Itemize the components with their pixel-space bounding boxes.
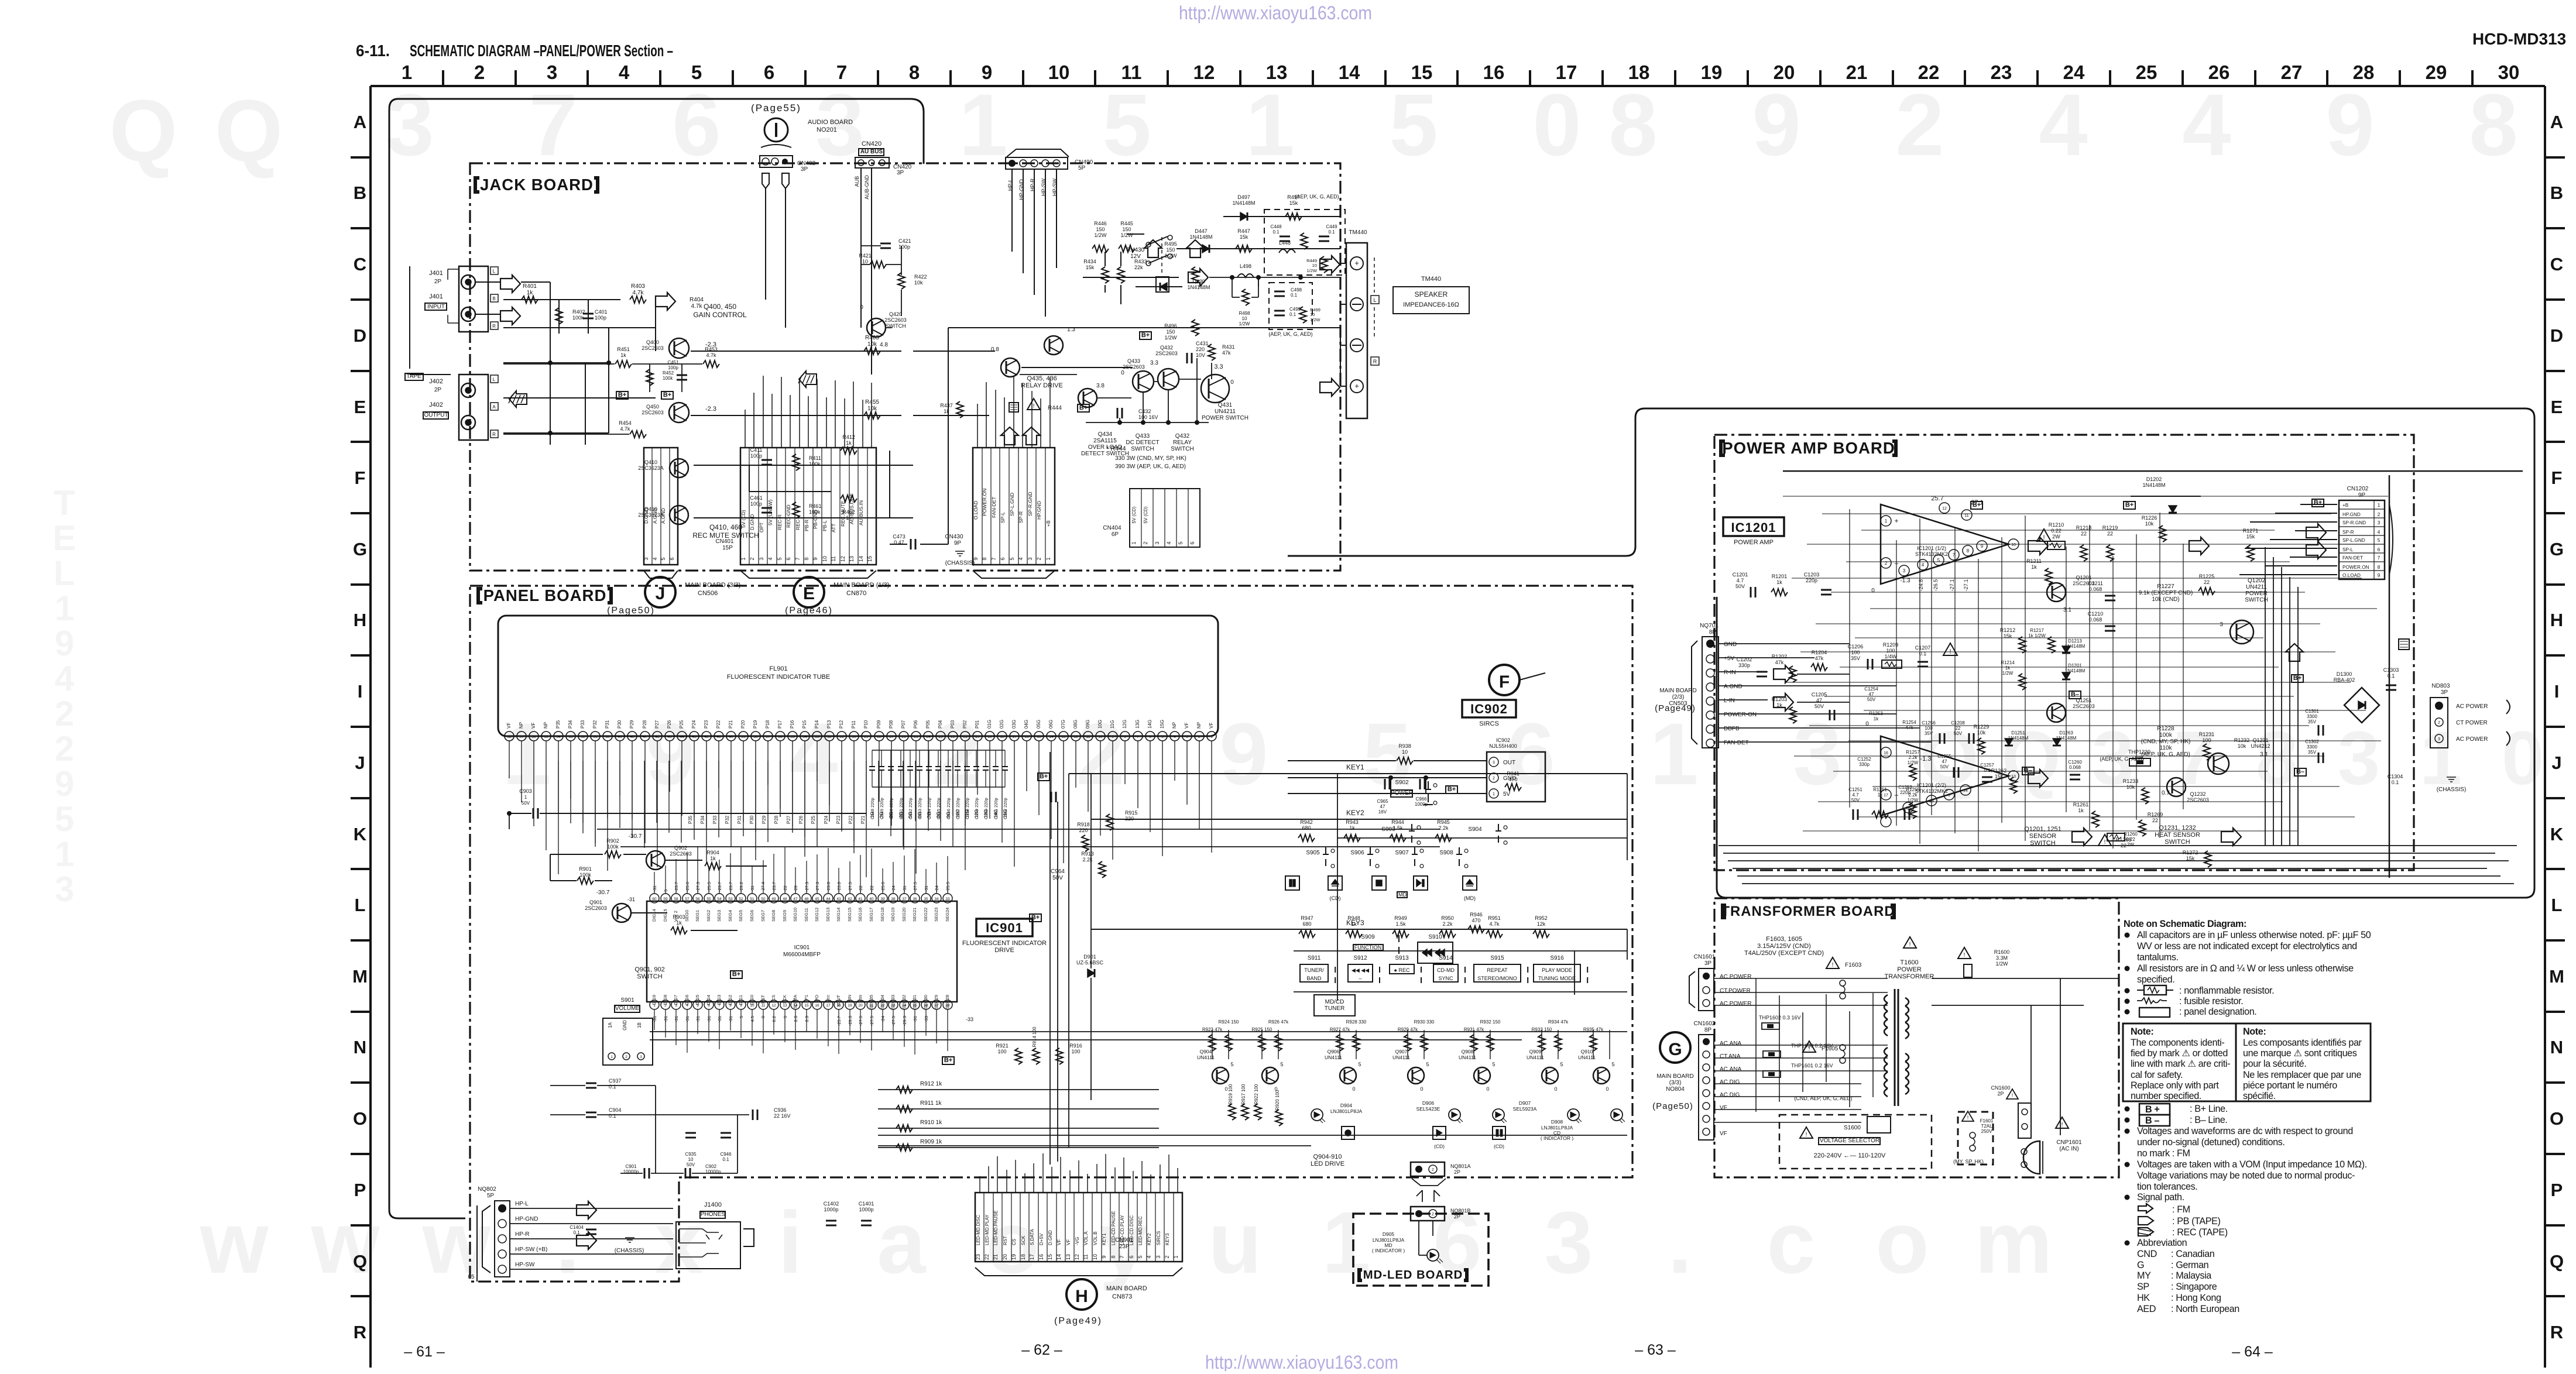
svg-text:P25: P25 — [679, 720, 684, 729]
note nonflammable resistor — [2125, 988, 2130, 994]
svg-text:TRANSFORMER: TRANSFORMER — [1885, 973, 1934, 980]
svg-text:-33: -33 — [924, 1016, 929, 1022]
svg-text:Q901, 902: Q901, 902 — [634, 966, 664, 973]
resistor R497 — [1285, 213, 1302, 220]
svg-text:!: ! — [2012, 1093, 2014, 1098]
svg-text:J: J — [2551, 753, 2561, 773]
svg-text:10: 10 — [2011, 543, 2016, 547]
svg-text:12: 12 — [1074, 1254, 1080, 1260]
svg-text:13G: 13G — [1135, 720, 1140, 729]
label MD/CD TUNER — [1314, 995, 1355, 1016]
svg-text:2SC2603: 2SC2603 — [670, 851, 692, 857]
svg-text:(Page50): (Page50) — [1652, 1101, 1693, 1111]
svg-text:R912 1k: R912 1k — [920, 1081, 942, 1087]
note bullet resistors — [2125, 966, 2130, 971]
svg-text:1k: 1k — [2031, 564, 2037, 570]
wire transformer right — [1932, 978, 2119, 1174]
svg-text:J1400: J1400 — [704, 1201, 722, 1208]
svg-text:LNJ801LP8JA: LNJ801LP8JA — [1330, 1108, 1363, 1114]
svg-text:AC.POWER: AC.POWER — [1720, 1001, 1751, 1007]
svg-text:14: 14 — [1049, 735, 1054, 739]
resistor R447 — [1236, 245, 1252, 252]
svg-text:10k: 10k — [2126, 784, 2135, 790]
svg-text:R434: R434 — [1083, 259, 1096, 265]
svg-text:CS: CS — [771, 995, 776, 1001]
svg-text:R445: R445 — [1120, 221, 1133, 226]
svg-text:R951: R951 — [1488, 915, 1501, 921]
svg-text:9: 9 — [812, 557, 818, 560]
svg-text:+: + — [1354, 259, 1359, 267]
svg-text:D447: D447 — [1195, 228, 1208, 234]
svg-text:Q: Q — [353, 1251, 367, 1272]
svg-text:56: 56 — [531, 735, 536, 739]
svg-text:P: P — [2551, 1180, 2563, 1200]
svg-text:VF: VF — [1184, 723, 1189, 729]
wire amp in — [1719, 644, 1932, 742]
svg-text:NP: NP — [543, 722, 548, 729]
resistor R1260 — [2098, 834, 2111, 846]
svg-text:B+: B+ — [2314, 499, 2322, 506]
svg-text:2SC2603: 2SC2603 — [585, 905, 607, 911]
svg-text:R1202: R1202 — [1772, 654, 1788, 659]
svg-text:0: 0 — [2502, 715, 2544, 801]
svg-text:220: 220 — [1079, 827, 1088, 833]
svg-text:1k: 1k — [1874, 716, 1879, 722]
svg-text:R934 47k: R934 47k — [1548, 1019, 1569, 1025]
svg-text:C448: C448 — [1270, 224, 1282, 229]
svg-text:B+: B+ — [1973, 501, 1981, 509]
svg-text:1N4148M: 1N4148M — [1189, 234, 1212, 240]
svg-text:H: H — [354, 610, 366, 630]
svg-text:: North European: : North European — [2171, 1304, 2239, 1314]
svg-text:57: 57 — [685, 897, 690, 901]
svg-text:(Page49): (Page49) — [1054, 1316, 1102, 1326]
svg-text:-27.1: -27.1 — [1949, 579, 1955, 592]
svg-text:150: 150 — [1166, 329, 1175, 335]
svg-text:B+: B+ — [944, 1057, 952, 1064]
svg-text:C1251: C1251 — [1848, 787, 1862, 792]
svg-text:SEG30: SEG30 — [923, 995, 928, 1009]
svg-text:21: 21 — [963, 735, 968, 739]
svg-text:R952: R952 — [1535, 915, 1548, 921]
diode D447 — [1176, 248, 1340, 249]
resistor R431 — [1208, 344, 1215, 360]
svg-text:R: R — [2550, 1322, 2563, 1342]
svg-text:50: 50 — [605, 735, 610, 739]
signal arrow hp1 — [1144, 240, 1162, 257]
svg-text:3G: 3G — [889, 812, 894, 818]
mark I box — [2399, 639, 2409, 650]
svg-text:SCK: SCK — [1021, 1235, 1026, 1245]
svg-text:D904: D904 — [1340, 1102, 1353, 1108]
resistor R437 — [956, 401, 963, 418]
svg-text:-23.8: -23.8 — [836, 882, 842, 892]
svg-text:Vss: Vss — [857, 995, 863, 1002]
svg-text:J401: J401 — [429, 293, 443, 300]
svg-text:-27.5: -27.5 — [891, 1016, 896, 1026]
heat sensor transistors — [2167, 778, 2186, 796]
svg-text:0: 0 — [760, 1016, 766, 1018]
svg-text:5: 5 — [1230, 1062, 1233, 1067]
svg-text:15P: 15P — [722, 545, 733, 551]
svg-text:C903: C903 — [519, 788, 532, 794]
svg-text:CN506: CN506 — [698, 590, 718, 597]
svg-text:(AEP, UK, G, AED): (AEP, UK, G, AED) — [1295, 194, 1339, 200]
svg-text:2SC3623A: 2SC3623A — [638, 465, 664, 471]
svg-text:P22: P22 — [716, 720, 721, 729]
svg-text:-26.5: -26.5 — [1933, 579, 1939, 592]
svg-text:SP-R: SP-R — [1018, 511, 1024, 523]
svg-text:-31: -31 — [728, 1016, 733, 1022]
svg-text:SYNC: SYNC — [1438, 975, 1453, 981]
svg-text:D1300: D1300 — [2337, 671, 2352, 677]
svg-text:G: G — [1668, 1040, 1682, 1059]
svg-text:HEAT SENSOR: HEAT SENSOR — [2155, 832, 2200, 839]
svg-text:10k: 10k — [914, 280, 923, 286]
svg-text:C935: C935 — [685, 1152, 697, 1157]
svg-text:-31: -31 — [924, 885, 929, 892]
svg-text:59: 59 — [663, 897, 668, 901]
signal arrows amp in — [1774, 665, 1793, 679]
svg-text:3300: 3300 — [2307, 744, 2317, 750]
svg-text:a: a — [877, 1193, 927, 1291]
svg-text:B+: B+ — [1141, 332, 1150, 339]
svg-text:TM440: TM440 — [1421, 276, 1441, 283]
svg-text:HCD-MD313: HCD-MD313 — [2472, 30, 2566, 48]
svg-text:SEG6: SEG6 — [749, 910, 754, 922]
svg-text:R930 330: R930 330 — [1414, 1019, 1435, 1025]
resistor R412 — [841, 447, 857, 454]
svg-text:: B+ Line.: : B+ Line. — [2190, 1104, 2228, 1114]
svg-text:P12: P12 — [839, 720, 844, 729]
svg-text:– 63 –: – 63 – — [1635, 1342, 1676, 1358]
svg-text:IMPEDANCE6-16Ω: IMPEDANCE6-16Ω — [1403, 301, 1459, 308]
svg-text:3: 3 — [2378, 520, 2381, 525]
signal arrow mid — [2189, 537, 2209, 551]
svg-text:12k: 12k — [1537, 921, 1546, 927]
svg-text:P18: P18 — [765, 720, 770, 729]
svg-text:100k: 100k — [809, 461, 821, 467]
svg-text:52: 52 — [739, 897, 743, 901]
svg-text:2: 2 — [1164, 1255, 1170, 1258]
svg-text:R: R — [1373, 359, 1377, 365]
svg-text:6: 6 — [764, 61, 774, 83]
svg-text:D1202: D1202 — [2146, 476, 2162, 482]
svg-text:JACK BOARD: JACK BOARD — [480, 176, 594, 194]
svg-text:53: 53 — [568, 735, 573, 739]
svg-text:1: 1 — [402, 61, 412, 83]
label B+ led — [942, 1057, 954, 1064]
MD-LED board connector NQ801A — [1411, 1162, 1445, 1176]
svg-text:-31: -31 — [663, 1016, 668, 1022]
svg-text:SEG29: SEG29 — [934, 995, 939, 1009]
svg-text:DBFB: DBFB — [1724, 726, 1740, 732]
svg-text:Q434: Q434 — [1098, 431, 1113, 438]
svg-text:5: 5 — [2378, 537, 2381, 543]
svg-text:1/2W: 1/2W — [1120, 232, 1133, 238]
svg-text:0.7: 0.7 — [2162, 790, 2170, 796]
svg-text:27: 27 — [889, 735, 894, 739]
svg-text:2P: 2P — [1997, 1091, 2004, 1097]
svg-text:R1210: R1210 — [2049, 522, 2064, 528]
svg-text:1: 1 — [1210, 735, 1213, 739]
diode D497 — [1223, 216, 1340, 217]
svg-text:0: 0 — [1871, 588, 1875, 594]
svg-text:FLUORESCENT INDICATOR: FLUORESCENT INDICATOR — [962, 940, 1047, 947]
svg-text:-1.3: -1.3 — [1920, 755, 1932, 762]
svg-text:3.3M: 3.3M — [1996, 955, 2008, 961]
svg-text:C1257: C1257 — [1980, 762, 1994, 768]
svg-text:S911: S911 — [1308, 955, 1321, 961]
svg-text:A.GND: A.GND — [652, 508, 658, 524]
svg-text:NJL55H400: NJL55H400 — [1489, 743, 1517, 749]
svg-text:11: 11 — [1086, 735, 1090, 739]
svg-text:P20: P20 — [740, 720, 746, 729]
svg-text:IC1201: IC1201 — [1731, 520, 1776, 535]
svg-text:F1603, 1605: F1603, 1605 — [1766, 936, 1802, 943]
svg-text:3.8: 3.8 — [1096, 383, 1105, 389]
svg-text:P10: P10 — [863, 720, 869, 729]
capacitor C901 — [644, 1168, 646, 1179]
svg-text:J: J — [355, 753, 365, 773]
svg-text:100: 100 — [1886, 648, 1895, 654]
svg-text:SEG24: SEG24 — [945, 908, 950, 922]
svg-text:0.1: 0.1 — [1272, 229, 1280, 235]
svg-text:CT.ANA: CT.ANA — [1720, 1053, 1741, 1060]
svg-text:Q901: Q901 — [589, 899, 602, 905]
svg-text:16: 16 — [1884, 751, 1888, 755]
svg-text:3: 3 — [54, 870, 74, 909]
svg-text:0.1: 0.1 — [1289, 312, 1296, 317]
svg-text:30: 30 — [2498, 61, 2520, 83]
resistor R402 — [555, 308, 562, 324]
svg-text:* R444: * R444 — [1106, 445, 1126, 452]
svg-text:1N4148M: 1N4148M — [2142, 482, 2165, 488]
svg-text:-27.4: -27.4 — [760, 882, 766, 892]
svg-text:MD: MD — [1398, 892, 1407, 898]
svg-text:15: 15 — [1411, 61, 1433, 83]
svg-text:4: 4 — [1166, 541, 1172, 544]
svg-text:L: L — [2551, 895, 2563, 915]
svg-text:: fusible resistor.: : fusible resistor. — [2179, 996, 2243, 1007]
svg-text:4: 4 — [1922, 562, 1925, 568]
label B+ panel — [730, 971, 742, 978]
svg-text:R444: R444 — [1048, 405, 1062, 411]
svg-text:INPUT: INPUT — [427, 304, 445, 310]
svg-text:UN4211: UN4211 — [2246, 584, 2267, 590]
svg-text:P23: P23 — [836, 815, 841, 824]
svg-text:R1251: R1251 — [1873, 787, 1887, 792]
svg-text:http://www.xiaoyu163.com: http://www.xiaoyu163.com — [1179, 2, 1372, 23]
svg-text:FAN-DET: FAN-DET — [1724, 740, 1749, 746]
svg-text:3.1: 3.1 — [2063, 607, 2071, 613]
signal arrow amp out — [2028, 537, 2048, 551]
circled G callout — [1660, 1032, 1690, 1063]
svg-text:9: 9 — [1752, 75, 1800, 174]
svg-text:38: 38 — [891, 897, 896, 901]
svg-text:OUT: OUT — [1503, 760, 1515, 766]
svg-text:2SC2603: 2SC2603 — [2073, 703, 2095, 709]
svg-text:POWER AMP: POWER AMP — [1734, 539, 1774, 546]
circled E callout — [794, 577, 824, 607]
svg-text:TRANSFORMER BOARD: TRANSFORMER BOARD — [1721, 904, 1895, 919]
svg-text:1/2W: 1/2W — [1094, 232, 1107, 238]
connector CN402 — [760, 156, 793, 167]
svg-text:100p: 100p — [750, 453, 762, 459]
label B+ amp1 — [1971, 501, 1982, 509]
svg-text:35: 35 — [924, 897, 928, 901]
svg-text:E: E — [2551, 397, 2563, 417]
svg-text:SEG13: SEG13 — [825, 908, 831, 922]
svg-text:Note on Schematic Diagram:: Note on Schematic Diagram: — [2124, 919, 2246, 929]
svg-text:47: 47 — [643, 735, 647, 739]
svg-text:FAN-DET: FAN-DET — [2342, 555, 2363, 561]
svg-text:3: 3 — [1186, 735, 1188, 739]
svg-text:1: 1 — [2378, 502, 2381, 508]
svg-text:5: 5 — [1389, 75, 1438, 174]
svg-text:1k: 1k — [620, 352, 626, 358]
svg-text:07G: 07G — [1061, 720, 1066, 729]
note abbreviation — [2125, 1241, 2130, 1246]
svg-text:20: 20 — [1002, 1254, 1008, 1260]
svg-text:14G: 14G — [993, 809, 999, 818]
svg-text:SEG18: SEG18 — [880, 908, 885, 922]
svg-text:Q902: Q902 — [674, 845, 687, 851]
svg-text:Q908: Q908 — [1462, 1049, 1474, 1054]
svg-text:REC-R: REC-R — [777, 514, 783, 530]
wire bus jack left — [410, 282, 656, 445]
svg-text:DIG6: DIG6 — [684, 995, 690, 1005]
fuse F1605 sym — [1803, 1041, 1816, 1052]
svg-text:4.7k: 4.7k — [1489, 921, 1500, 927]
svg-text:11G: 11G — [1110, 720, 1115, 729]
svg-text:11: 11 — [831, 556, 836, 561]
svg-text:D901: D901 — [1083, 954, 1096, 960]
svg-text:O.LOAD: O.LOAD — [973, 501, 979, 520]
svg-text:POWER: POWER — [1897, 966, 1922, 973]
svg-text:SEG22: SEG22 — [923, 908, 928, 922]
svg-text:10G: 10G — [1097, 720, 1103, 729]
svg-text:10: 10 — [1098, 735, 1103, 739]
svg-text:08G: 08G — [1073, 720, 1078, 729]
svg-text:R: R — [492, 432, 496, 437]
svg-text:-31: -31 — [627, 896, 635, 902]
svg-text:R915: R915 — [1125, 810, 1138, 816]
svg-text:0: 0 — [860, 304, 863, 311]
fuse F1603 sym — [1826, 957, 1839, 968]
svg-text:3: 3 — [1154, 541, 1160, 544]
svg-text:OUTPUT: OUTPUT — [424, 412, 448, 418]
svg-text:– 64 –: – 64 – — [2232, 1344, 2273, 1360]
svg-text:8G: 8G — [936, 812, 941, 818]
svg-text:C1404: C1404 — [570, 1225, 584, 1230]
svg-text:4.5: 4.5 — [750, 1016, 755, 1022]
svg-text:10: 10 — [822, 556, 828, 562]
svg-text:100p: 100p — [595, 315, 606, 321]
svg-text:AU BUS: AU BUS — [860, 149, 883, 155]
svg-text:3: 3 — [1544, 1193, 1593, 1291]
svg-text:9G: 9G — [946, 812, 951, 818]
svg-text:R946: R946 — [1470, 912, 1483, 918]
svg-text:15k: 15k — [1240, 234, 1248, 240]
transistor Q435 — [1044, 336, 1063, 355]
svg-text:L: L — [1373, 297, 1376, 303]
selector switch sym — [1867, 1117, 1891, 1133]
svg-text:P29: P29 — [762, 815, 767, 824]
svg-text:O.LOAD: O.LOAD — [2342, 573, 2361, 578]
svg-text:-31: -31 — [750, 885, 755, 892]
svg-text:0: 0 — [1554, 1086, 1557, 1092]
svg-text:14G: 14G — [1147, 720, 1152, 729]
svg-text:-29.3: -29.3 — [848, 1016, 853, 1026]
svg-text:42: 42 — [704, 735, 709, 739]
svg-text:Q433: Q433 — [1136, 433, 1150, 439]
svg-text:PB-R: PB-R — [804, 520, 809, 531]
note PB arrow — [2138, 1217, 2153, 1225]
svg-text:05: 05 — [468, 1274, 475, 1280]
IC902 chip — [1487, 752, 1545, 802]
svg-text:100: 100 — [1071, 1049, 1080, 1054]
svg-text:-31: -31 — [652, 885, 657, 892]
resistor R433 — [1117, 267, 1124, 283]
svg-text:15G: 15G — [1003, 809, 1008, 818]
svg-text:S907: S907 — [1395, 850, 1409, 856]
resistor R904 — [705, 863, 721, 870]
svg-text:R942: R942 — [1300, 819, 1313, 825]
svg-text:R: R — [492, 324, 496, 329]
svg-text:17: 17 — [826, 1004, 831, 1008]
svg-text:UN4212: UN4212 — [2251, 743, 2270, 749]
svg-text:P08: P08 — [889, 720, 894, 729]
label B- amp2 — [2022, 767, 2034, 775]
svg-text:12: 12 — [840, 556, 846, 562]
svg-text:-31: -31 — [695, 1016, 701, 1022]
svg-text:1000p: 1000p — [824, 1207, 838, 1212]
svg-text:SEG35: SEG35 — [869, 995, 874, 1009]
svg-text:100 16V: 100 16V — [1138, 414, 1158, 420]
svg-text:0: 0 — [1121, 370, 1124, 376]
capacitor C904 — [586, 1112, 596, 1114]
wire speaker arrows — [1320, 256, 1340, 270]
svg-text:D+5V: D+5V — [1039, 1233, 1044, 1245]
svg-text:8: 8 — [2256, 715, 2298, 801]
svg-text:(CHASSIS): (CHASSIS) — [2437, 786, 2467, 793]
svg-text:MAIN BOARD: MAIN BOARD — [1656, 1073, 1693, 1080]
svg-text:J401: J401 — [429, 270, 443, 277]
svg-text:12: 12 — [1193, 61, 1215, 83]
svg-text:D907: D907 — [1519, 1100, 1531, 1106]
svg-text:R1201: R1201 — [1772, 573, 1788, 579]
transistor Q420 switch — [867, 318, 886, 337]
svg-text:ATT: ATT — [831, 524, 836, 533]
svg-text:8P: 8P — [1704, 1027, 1712, 1033]
svg-text:5: 5 — [777, 557, 783, 560]
svg-text:N: N — [2550, 1037, 2563, 1057]
svg-text:0.1: 0.1 — [1328, 229, 1335, 235]
svg-text:KEY3: KEY3 — [1165, 1233, 1170, 1245]
transistor Q410 — [670, 459, 688, 478]
svg-text:under no-signal (detuned) cond: under no-signal (detuned) conditions. — [2137, 1137, 2285, 1148]
svg-text:0.1: 0.1 — [2392, 779, 2399, 785]
wire bus relay bottom — [1020, 358, 1212, 422]
resistor R411 — [793, 454, 800, 470]
svg-text:5: 5 — [1426, 1062, 1429, 1067]
wire ic902 — [1288, 778, 1487, 794]
op-amp IC1201 1/2 — [1881, 504, 2009, 584]
svg-text:15k: 15k — [1086, 265, 1095, 270]
svg-text:HP-SW: HP-SW — [515, 1262, 535, 1268]
svg-text:CN901: CN901 — [1115, 1237, 1134, 1244]
